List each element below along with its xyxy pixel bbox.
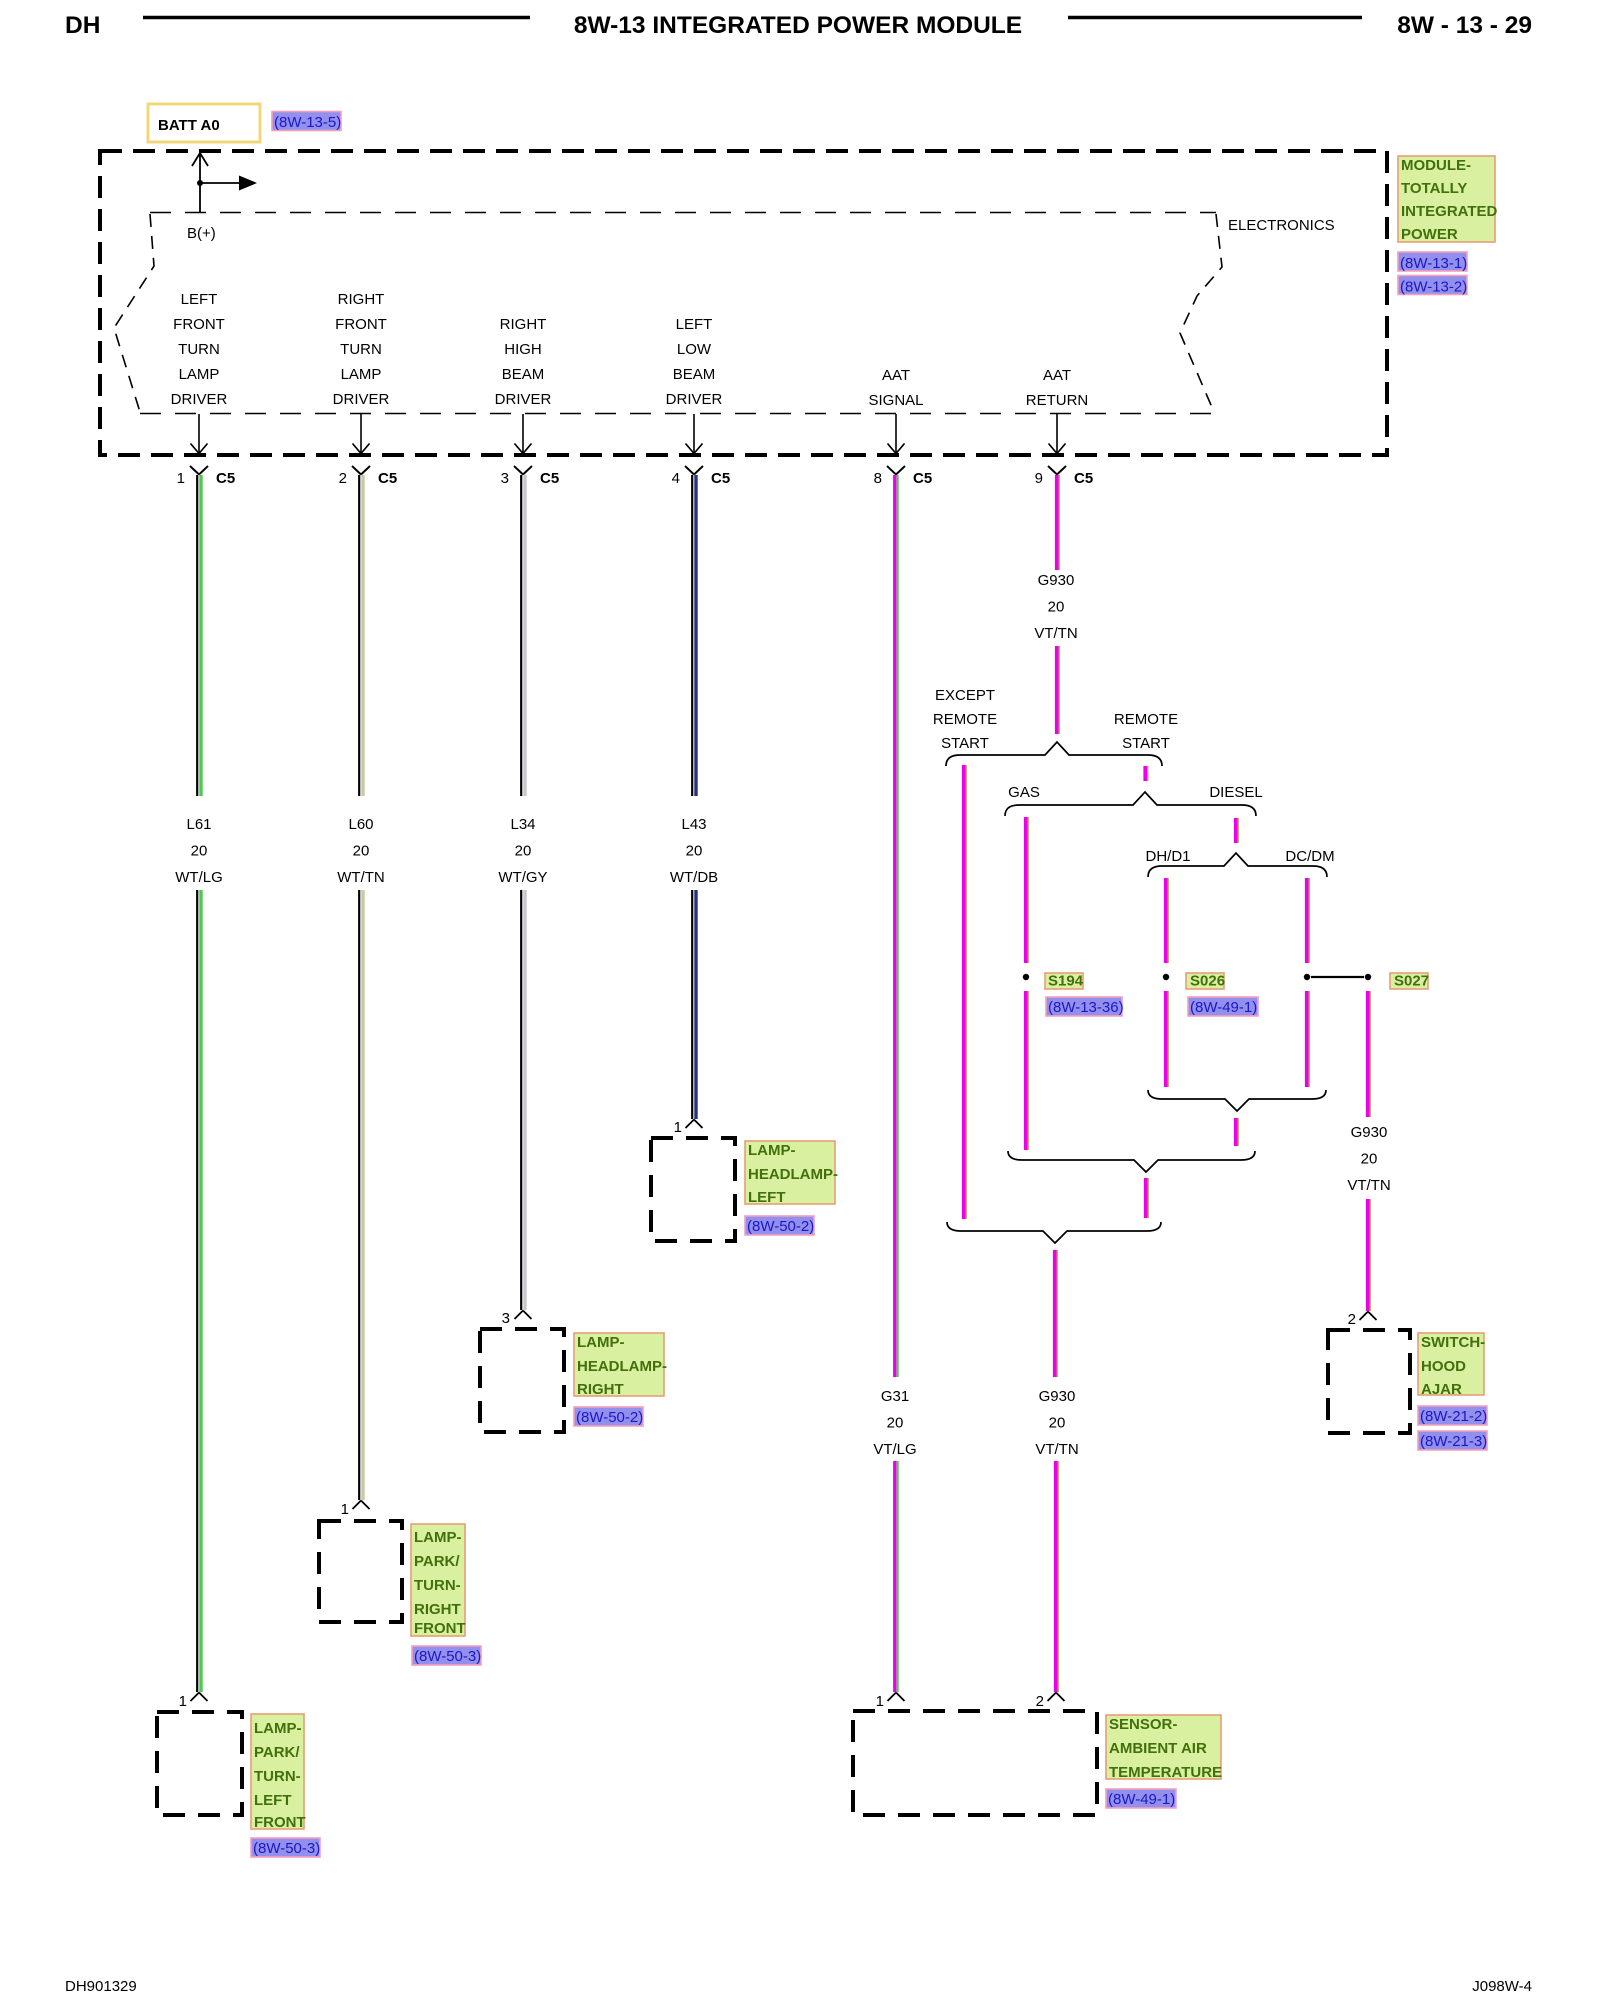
svg-text:2: 2 — [1348, 1311, 1356, 1328]
connector pin 2 C5 — [339, 466, 398, 487]
svg-text:RETURN: RETURN — [1026, 392, 1089, 409]
svg-text:8W - 13 - 29: 8W - 13 - 29 — [1397, 12, 1532, 39]
label S027 — [1390, 973, 1429, 990]
connector pin 3 C5 — [501, 466, 560, 487]
wire label G930 20 VT/TN top — [1034, 572, 1077, 642]
label LEFT LOW BEAM DRIVER — [666, 316, 723, 408]
pin 3 of right headlamp — [502, 1310, 532, 1327]
electronics inner boundary right torn edge — [1180, 214, 1222, 412]
wire gas branch upper — [1026, 817, 1029, 963]
svg-text:2: 2 — [339, 470, 347, 487]
wire label G31 20 VT/LG — [873, 1388, 916, 1458]
svg-text:(8W-49-1): (8W-49-1) — [1108, 1791, 1175, 1808]
svg-text:AJAR: AJAR — [1421, 1381, 1462, 1398]
electronics inner boundary left torn edge — [114, 214, 154, 412]
svg-text:PARK/: PARK/ — [414, 1553, 460, 1570]
svg-text:(8W-49-1): (8W-49-1) — [1190, 999, 1257, 1016]
svg-text:SENSOR-: SENSOR- — [1109, 1716, 1177, 1733]
svg-text:TEMPERATURE: TEMPERATURE — [1109, 1764, 1222, 1781]
svg-text:VT/TN: VT/TN — [1347, 1177, 1390, 1194]
label LAMP-HEADLAMP-LEFT — [745, 1141, 838, 1206]
svg-text:20: 20 — [1048, 599, 1065, 616]
label EXCEPT REMOTE START — [933, 687, 997, 752]
label AAT RETURN — [1026, 367, 1089, 409]
label ELECTRONICS — [1228, 217, 1335, 234]
svg-text:SIGNAL: SIGNAL — [868, 392, 923, 409]
wire link to S027 — [1311, 976, 1364, 978]
label S194 — [1045, 973, 1084, 990]
wire L60 upper segment — [359, 475, 363, 796]
connector pin 4 C5 — [672, 466, 731, 487]
svg-text:LOW: LOW — [677, 341, 712, 358]
wire hood switch lower segment — [1368, 1199, 1371, 1311]
svg-text:REMOTE: REMOTE — [1114, 711, 1178, 728]
svg-text:BATT A0: BATT A0 — [158, 117, 220, 134]
wire B(+) feed with junction and arrow — [192, 153, 257, 212]
svg-text:POWER: POWER — [1401, 226, 1458, 243]
svg-text:(8W-50-3): (8W-50-3) — [414, 1648, 481, 1665]
label (8W-50-2) right headlamp — [574, 1407, 643, 1426]
svg-text:LAMP-: LAMP- — [414, 1529, 462, 1546]
label SENSOR-AMBIENT AIR TEMPERATURE — [1106, 1715, 1222, 1781]
wire L61 upper segment — [197, 475, 201, 796]
label LAMP-PARK/TURN-RIGHT FRONT — [411, 1524, 466, 1637]
header rule right — [1068, 16, 1362, 20]
wire L34 upper segment — [521, 475, 525, 796]
page header title DH — [65, 12, 100, 39]
svg-text:LAMP-: LAMP- — [254, 1720, 302, 1737]
pin 2 of hood ajar switch — [1348, 1311, 1377, 1328]
svg-text:(8W-21-2): (8W-21-2) — [1420, 1408, 1487, 1425]
svg-text:C5: C5 — [540, 470, 559, 487]
svg-text:3: 3 — [502, 1310, 510, 1327]
svg-text:L34: L34 — [510, 816, 535, 833]
svg-text:HOOD: HOOD — [1421, 1358, 1466, 1375]
svg-text:FRONT: FRONT — [254, 1814, 306, 1831]
page number 8W - 13 - 29 — [1397, 12, 1532, 39]
label SWITCH-HOOD AJAR — [1418, 1333, 1485, 1398]
wire G930 to sensor upper — [1055, 1250, 1058, 1377]
splice S026 — [1163, 974, 1169, 980]
svg-text:1: 1 — [876, 1693, 884, 1710]
svg-text:4: 4 — [672, 470, 680, 487]
svg-text:(8W-13-2): (8W-13-2) — [1400, 279, 1467, 296]
svg-text:RIGHT: RIGHT — [414, 1601, 461, 1618]
svg-text:C5: C5 — [378, 470, 397, 487]
wire except remote start branch — [964, 765, 967, 1219]
svg-text:VT/TN: VT/TN — [1034, 625, 1077, 642]
svg-text:20: 20 — [1049, 1415, 1066, 1432]
connector pin 8 C5 — [874, 466, 933, 487]
svg-text:(8W-13-5): (8W-13-5) — [274, 114, 341, 131]
svg-text:C5: C5 — [1074, 470, 1093, 487]
svg-text:(8W-13-36): (8W-13-36) — [1048, 999, 1124, 1016]
svg-text:2: 2 — [1036, 1693, 1044, 1710]
svg-text:(8W-50-3): (8W-50-3) — [253, 1840, 320, 1857]
svg-text:TOTALLY: TOTALLY — [1401, 180, 1467, 197]
wire label L60 20 WT/TN — [337, 816, 384, 886]
svg-text:DRIVER: DRIVER — [666, 391, 723, 408]
svg-text:S194: S194 — [1048, 973, 1084, 990]
svg-text:LEFT: LEFT — [676, 316, 713, 333]
svg-text:1: 1 — [177, 470, 185, 487]
split brace remote start — [946, 742, 1162, 766]
svg-text:1: 1 — [341, 1501, 349, 1518]
module output arrow AAT RETURN — [1049, 414, 1066, 454]
module output arrow LEFT FRONT TURN LAMP DRIVER — [191, 414, 208, 454]
svg-text:HEADLAMP-: HEADLAMP- — [577, 1358, 667, 1375]
svg-text:FRONT: FRONT — [173, 316, 225, 333]
component SWITCH-HOOD AJAR box — [1328, 1330, 1410, 1433]
wire L60 lower segment — [359, 890, 363, 1500]
wire remote start merge stub — [1146, 1178, 1149, 1218]
merge brace remote start — [947, 1222, 1161, 1243]
label LEFT FRONT TURN LAMP DRIVER — [171, 291, 228, 408]
label DIESEL — [1209, 784, 1262, 801]
label RIGHT HIGH BEAM DRIVER — [495, 316, 552, 408]
label DC/DM — [1285, 848, 1334, 865]
svg-text:WT/TN: WT/TN — [337, 869, 384, 886]
svg-text:WT/LG: WT/LG — [175, 869, 223, 886]
svg-text:DRIVER: DRIVER — [171, 391, 228, 408]
label (8W-21-2) — [1418, 1406, 1487, 1425]
svg-text:C5: C5 — [711, 470, 730, 487]
svg-text:LAMP: LAMP — [179, 366, 220, 383]
svg-text:1: 1 — [674, 1119, 682, 1136]
svg-text:RIGHT: RIGHT — [338, 291, 385, 308]
svg-text:9: 9 — [1035, 470, 1043, 487]
wire L43 upper segment — [692, 475, 696, 796]
svg-text:GAS: GAS — [1008, 784, 1040, 801]
wire gas branch lower — [1026, 991, 1029, 1150]
svg-text:FRONT: FRONT — [414, 1620, 466, 1637]
svg-text:3: 3 — [501, 470, 509, 487]
pin 1 of AAT sensor — [876, 1693, 905, 1711]
label DH/D1 — [1145, 848, 1190, 865]
svg-text:DH/D1: DH/D1 — [1145, 848, 1190, 865]
component SENSOR-AMBIENT AIR TEMPERATURE box — [853, 1711, 1097, 1815]
svg-text:RIGHT: RIGHT — [577, 1381, 624, 1398]
svg-text:DRIVER: DRIVER — [333, 391, 390, 408]
pin 1 of right park/turn lamp — [341, 1501, 370, 1519]
svg-text:20: 20 — [515, 843, 532, 860]
merge brace gas/diesel — [1008, 1151, 1255, 1172]
label B(+) — [187, 225, 216, 242]
module output arrow RIGHT HIGH BEAM DRIVER — [515, 414, 532, 454]
svg-text:LAMP-: LAMP- — [748, 1142, 796, 1159]
wire G930 from pin 9 — [1057, 475, 1060, 570]
svg-text:AAT: AAT — [1043, 367, 1071, 384]
svg-text:20: 20 — [686, 843, 703, 860]
svg-text:(8W-50-2): (8W-50-2) — [576, 1409, 643, 1426]
svg-text:TURN-: TURN- — [254, 1768, 301, 1785]
svg-text:PARK/: PARK/ — [254, 1744, 300, 1761]
wire label L43 20 WT/DB — [670, 816, 718, 886]
label MODULE-TOTALLY INTEGRATED POWER — [1398, 156, 1498, 243]
svg-text:WT/DB: WT/DB — [670, 869, 718, 886]
wire DC/DM branch lower — [1307, 991, 1310, 1087]
electronics inner boundary top — [150, 212, 1216, 214]
page header title 8W-13 INTEGRATED POWER MODULE — [574, 12, 1022, 39]
wire G930 mid segment — [1057, 646, 1060, 734]
component LAMP-HEADLAMP-LEFT box — [651, 1138, 735, 1241]
split brace dh/dc — [1148, 853, 1327, 877]
module output arrow AAT SIGNAL — [888, 414, 905, 454]
connector pin 1 C5 — [177, 466, 236, 487]
wire label L34 20 WT/GY — [498, 816, 547, 886]
svg-text:EXCEPT: EXCEPT — [935, 687, 995, 704]
svg-text:LAMP: LAMP — [341, 366, 382, 383]
svg-text:AAT: AAT — [882, 367, 910, 384]
svg-text:S026: S026 — [1190, 973, 1225, 990]
svg-text:INTEGRATED: INTEGRATED — [1401, 203, 1498, 220]
label (8W-50-2) left headlamp — [745, 1216, 814, 1235]
svg-text:LEFT: LEFT — [181, 291, 218, 308]
footer code DH901329 — [65, 1978, 137, 1995]
svg-text:AMBIENT AIR: AMBIENT AIR — [1109, 1740, 1207, 1757]
svg-text:(8W-50-2): (8W-50-2) — [747, 1218, 814, 1235]
wire label L61 20 WT/LG — [175, 816, 223, 886]
label LAMP-HEADLAMP-RIGHT — [574, 1333, 667, 1398]
wire diesel merge stub — [1236, 1118, 1239, 1146]
label GAS — [1008, 784, 1040, 801]
component LAMP-PARK/TURN-LEFT FRONT box — [157, 1712, 242, 1815]
pin 1 of left headlamp — [674, 1119, 703, 1136]
svg-text:DRIVER: DRIVER — [495, 391, 552, 408]
svg-text:LEFT: LEFT — [748, 1189, 786, 1206]
label REMOTE START — [1114, 711, 1178, 752]
svg-text:8W-13 INTEGRATED POWER MODULE: 8W-13 INTEGRATED POWER MODULE — [574, 12, 1022, 39]
wire S027 down segment — [1368, 991, 1371, 1117]
wire L61 lower segment — [197, 890, 201, 1692]
wire DC/DM branch upper — [1307, 878, 1310, 963]
svg-text:20: 20 — [887, 1415, 904, 1432]
svg-text:RIGHT: RIGHT — [500, 316, 547, 333]
header rule left — [143, 16, 530, 20]
svg-text:L61: L61 — [186, 816, 211, 833]
module-totally integrated power outline box — [100, 151, 1387, 455]
svg-text:VT/LG: VT/LG — [873, 1441, 916, 1458]
wire label G930 20 VT/TN hood switch — [1347, 1124, 1390, 1194]
svg-text:VT/TN: VT/TN — [1035, 1441, 1078, 1458]
wire diesel stub — [1236, 818, 1239, 843]
svg-text:(8W-21-3): (8W-21-3) — [1420, 1433, 1487, 1450]
connector pin 9 C5 — [1035, 466, 1094, 487]
label LAMP-PARK/TURN-LEFT FRONT — [251, 1714, 306, 1831]
svg-text:(8W-13-1): (8W-13-1) — [1400, 255, 1467, 272]
label (8W-13-1) — [1398, 252, 1467, 272]
svg-text:WT/GY: WT/GY — [498, 869, 547, 886]
splice S027 node — [1365, 974, 1371, 980]
label RIGHT FRONT TURN LAMP DRIVER — [333, 291, 390, 408]
svg-text:TURN: TURN — [340, 341, 382, 358]
svg-text:DC/DM: DC/DM — [1285, 848, 1334, 865]
label S026 — [1186, 973, 1225, 990]
svg-text:L43: L43 — [681, 816, 706, 833]
svg-text:HEADLAMP-: HEADLAMP- — [748, 1166, 838, 1183]
svg-text:20: 20 — [191, 843, 208, 860]
svg-text:START: START — [941, 735, 989, 752]
svg-text:L60: L60 — [348, 816, 373, 833]
label (8W-49-1) sensor — [1106, 1789, 1176, 1808]
svg-text:HIGH: HIGH — [504, 341, 542, 358]
svg-text:B(+): B(+) — [187, 225, 216, 242]
svg-text:C5: C5 — [216, 470, 235, 487]
svg-text:S027: S027 — [1394, 973, 1429, 990]
label AAT SIGNAL — [868, 367, 923, 409]
wire label G930 20 VT/TN bottom — [1035, 1388, 1078, 1458]
wire DH/D1 branch upper — [1166, 878, 1169, 963]
label (8W-13-2) — [1398, 276, 1467, 296]
wire remote start stub — [1145, 766, 1148, 781]
svg-text:1: 1 — [179, 1693, 187, 1710]
svg-text:DIESEL: DIESEL — [1209, 784, 1262, 801]
svg-text:G930: G930 — [1039, 1388, 1076, 1405]
svg-text:DH: DH — [65, 12, 100, 39]
pin 2 of AAT sensor — [1036, 1693, 1065, 1711]
pin 1 of left park/turn lamp — [179, 1693, 208, 1711]
battery feed BATT A0 — [148, 104, 260, 142]
module output arrow RIGHT FRONT TURN LAMP DRIVER — [353, 414, 370, 454]
svg-text:20: 20 — [353, 843, 370, 860]
svg-text:G930: G930 — [1351, 1124, 1388, 1141]
svg-text:C5: C5 — [913, 470, 932, 487]
label (8W-49-1) splice — [1188, 997, 1258, 1016]
svg-text:LEFT: LEFT — [254, 1792, 292, 1809]
wire L34 lower segment — [521, 890, 525, 1310]
svg-text:TURN: TURN — [178, 341, 220, 358]
svg-text:MODULE-: MODULE- — [1401, 157, 1471, 174]
svg-text:BEAM: BEAM — [502, 366, 545, 383]
svg-text:FRONT: FRONT — [335, 316, 387, 333]
module output arrow LEFT LOW BEAM DRIVER — [686, 414, 703, 454]
component LAMP-PARK/TURN-RIGHT FRONT box — [319, 1521, 402, 1622]
svg-text:ELECTRONICS: ELECTRONICS — [1228, 217, 1335, 234]
component LAMP-HEADLAMP-RIGHT box — [480, 1329, 564, 1432]
label (8W-50-3) left — [251, 1838, 320, 1857]
footer code J098W-4 — [1472, 1978, 1532, 1995]
svg-text:J098W-4: J098W-4 — [1472, 1978, 1532, 1995]
label (8W-21-3) — [1418, 1431, 1487, 1450]
wire L43 lower segment — [692, 890, 696, 1119]
svg-text:G31: G31 — [881, 1388, 909, 1405]
wire G930 to sensor lower — [1056, 1461, 1059, 1692]
svg-text:8: 8 — [874, 470, 882, 487]
svg-text:SWITCH-: SWITCH- — [1421, 1334, 1485, 1351]
svg-text:G930: G930 — [1038, 572, 1075, 589]
merge brace dh/dc — [1148, 1090, 1326, 1111]
svg-text:LAMP-: LAMP- — [577, 1334, 625, 1351]
wire G31 segment — [895, 475, 898, 1377]
node junction DC/DM — [1304, 974, 1310, 980]
splice S194 — [1023, 974, 1029, 980]
svg-text:DH901329: DH901329 — [65, 1978, 137, 1995]
svg-text:20: 20 — [1361, 1151, 1378, 1168]
svg-text:BEAM: BEAM — [673, 366, 716, 383]
svg-text:TURN-: TURN- — [414, 1577, 461, 1594]
wire G31 lower segment — [895, 1461, 898, 1692]
label (8W-13-36) — [1046, 997, 1124, 1016]
split brace gas/diesel — [1005, 792, 1256, 816]
wire DH/D1 branch lower — [1166, 991, 1169, 1087]
svg-text:REMOTE: REMOTE — [933, 711, 997, 728]
electronics inner boundary bottom — [140, 413, 1214, 415]
label (8W-13-5) — [272, 112, 341, 132]
svg-text:START: START — [1122, 735, 1170, 752]
label (8W-50-3) right — [412, 1646, 481, 1665]
